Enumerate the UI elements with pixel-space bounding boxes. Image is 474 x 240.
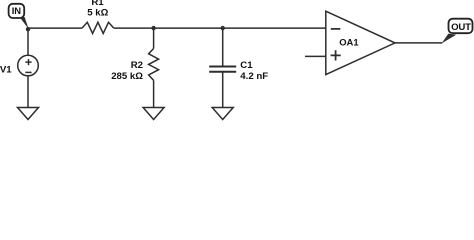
op-amp minus input symbol [331,28,341,30]
node IN flag box [9,4,25,18]
wire op-amp output [395,42,442,44]
svg-text:OUT: OUT [451,22,471,33]
wire main horizontal left segment [28,27,82,29]
wire C1 branch bottom [222,72,224,107]
node OUT flag box [449,19,473,34]
wire R2 branch bottom [153,80,155,107]
wire V1 bottom [27,76,29,108]
junction dot R2 node [151,26,155,30]
V1 minus sign [25,71,31,73]
junction dot node IN [26,27,30,31]
svg-text:OA1: OA1 [339,37,358,48]
svg-text:285 kΩ: 285 kΩ [111,71,143,82]
wire main horizontal right segment [114,27,326,29]
capacitor C1 top plate [209,66,236,68]
wire R2 branch top [153,28,155,48]
resistor R2 [149,49,159,81]
svg-text:5 kΩ: 5 kΩ [87,8,108,19]
ground under V1 [18,108,39,120]
wire op-amp plus input stub [305,55,326,57]
ground under R2 [143,108,164,120]
svg-text:V1: V1 [0,65,12,76]
junction dot C1 node [221,26,225,30]
V1 plus sign [25,59,31,65]
wire V1 top [27,28,29,55]
ground under C1 [212,108,233,120]
wire C1 branch top [222,28,224,66]
node IN flag tail [20,17,29,29]
voltage source V1 circle [18,55,39,76]
node OUT flag tail [442,34,457,44]
op-amp plus input symbol [331,50,341,60]
svg-text:R2: R2 [131,60,143,71]
svg-text:4.2 nF: 4.2 nF [240,71,268,82]
svg-text:C1: C1 [240,60,253,71]
svg-text:IN: IN [12,5,21,16]
resistor R1 [82,22,114,33]
capacitor C1 bottom plate [209,71,236,73]
op-amp OA1 triangle [326,11,395,74]
